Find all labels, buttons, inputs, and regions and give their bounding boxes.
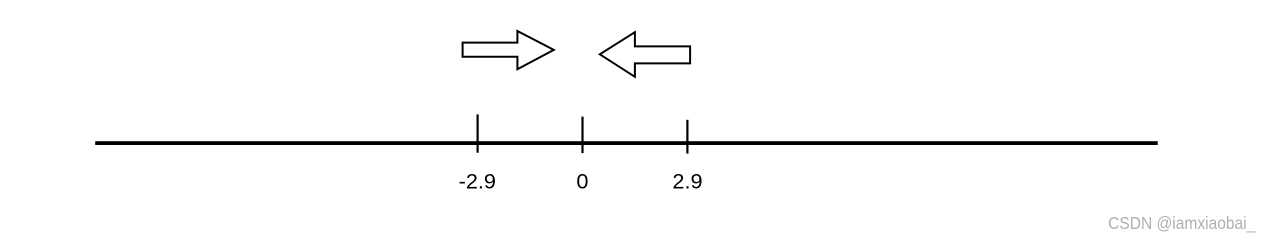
svg-text:CSDN @iamxiaobai_: CSDN @iamxiaobai_ bbox=[1108, 213, 1256, 233]
svg-text:0: 0 bbox=[576, 169, 588, 194]
svg-text:-2.9: -2.9 bbox=[459, 169, 496, 194]
svg-text:2.9: 2.9 bbox=[672, 169, 702, 194]
